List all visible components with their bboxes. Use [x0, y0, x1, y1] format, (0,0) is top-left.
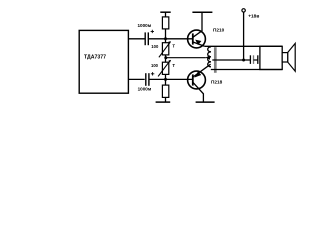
- transistor Q1 collector lead: [193, 13, 202, 37]
- wire bottom channel from C2 to Q2 base: [150, 78, 193, 80]
- svg-text:Т: Т: [172, 63, 175, 68]
- wire top channel from IC to C1: [129, 38, 145, 40]
- wire transformer to C3 junction: [212, 59, 250, 61]
- svg-text:ТДА7377: ТДА7377: [84, 55, 106, 61]
- transistor Q2 emitter lead with arrow: [193, 64, 211, 77]
- capacitor C3 plate 2 (gray): [253, 55, 255, 64]
- wire top rail to speaker (emitter Q1 to speaker top): [205, 45, 282, 47]
- variable resistor VR2 arrow: [158, 60, 170, 76]
- resistor R1: [162, 17, 168, 29]
- capacitor C2 plate 2: [148, 73, 150, 86]
- node junction dot top wire / R1 column: [164, 37, 167, 40]
- wire R1 top lead: [165, 12, 167, 17]
- terminal bar bottom of R2: [156, 101, 171, 103]
- transistor Q2 collector lead: [193, 82, 203, 102]
- node junction dot rail / tap wire: [242, 59, 245, 62]
- svg-text:Т: Т: [172, 44, 175, 49]
- terminal bar top of Q1 collector: [192, 11, 212, 13]
- wire top channel from C1 to Q1 base: [149, 38, 193, 40]
- wire bottom channel from IC to C2: [129, 78, 145, 80]
- wire from VR wipers to transformer tap: [166, 57, 206, 59]
- svg-text:1000м: 1000м: [138, 87, 152, 92]
- wire bottom to speaker: [211, 69, 282, 71]
- transformer core (gray bar): [214, 47, 217, 73]
- transistor Q2 base bar: [192, 74, 194, 85]
- variable resistor VR1 body: [162, 43, 168, 55]
- wire R2 bottom lead: [165, 97, 167, 102]
- wire +18в rail down: [243, 12, 245, 60]
- power terminal +18в: [242, 9, 245, 12]
- wire VR2 to bottom wire: [165, 74, 167, 85]
- speaker LS1 magnet square: [282, 53, 288, 62]
- capacitor C3 plate 1: [249, 55, 251, 64]
- capacitor C1 plate 1: [144, 32, 146, 45]
- svg-text:1000м: 1000м: [138, 23, 152, 28]
- capacitor C1 plate 2: [147, 32, 149, 45]
- transistor Q1 base bar: [192, 33, 194, 44]
- wire C3 to C4: [254, 59, 258, 61]
- IC U1 TDA7377 box: [79, 30, 128, 93]
- transistor Q2 П218 circle: [188, 71, 206, 89]
- svg-text:П210: П210: [213, 27, 225, 32]
- resistor R2: [162, 85, 168, 97]
- node junction dot bottom wire / R2 column: [164, 78, 167, 81]
- variable resistor VR1 arrow: [159, 42, 170, 57]
- variable resistor VR2 body: [162, 62, 168, 74]
- transistor Q1 П210 circle: [188, 30, 206, 48]
- svg-text:100: 100: [151, 44, 159, 49]
- wire VR1 to VR2: [165, 55, 167, 63]
- svg-text:100: 100: [151, 63, 159, 68]
- svg-text:+18в: +18в: [248, 13, 259, 19]
- speaker LS1 body rectangle: [260, 46, 282, 69]
- terminal bar bottom of Q2 collector: [196, 101, 215, 103]
- terminal bar top of R1: [160, 11, 170, 13]
- svg-text:П218: П218: [211, 80, 223, 85]
- arrowhead at transformer tap: [205, 55, 210, 59]
- node junction dot wiper wire / VR column: [164, 56, 167, 59]
- speaker LS1 cone: [288, 43, 295, 71]
- capacitor C1 polarity plus: [151, 30, 154, 33]
- capacitor C2 polarity plus: [151, 72, 154, 75]
- transformer L1 primary coil: [208, 47, 211, 67]
- capacitor C4 plate: [257, 55, 259, 64]
- transistor Q1 emitter lead with arrow: [193, 42, 205, 46]
- capacitor C2 plate 1: [145, 73, 147, 86]
- wire R1 bottom lead: [165, 29, 167, 43]
